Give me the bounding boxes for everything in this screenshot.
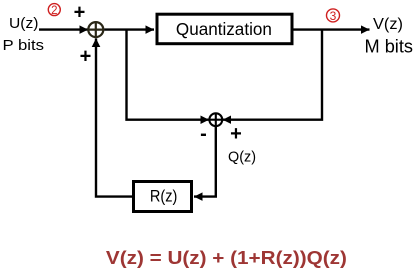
annotation circled 2 bbox=[48, 4, 60, 17]
svg-text:2: 2 bbox=[51, 5, 57, 17]
wire R(z) output left and up into summer S1 bottom input bbox=[96, 38, 132, 196]
svg-text:P bits: P bits bbox=[3, 37, 45, 54]
svg-text:U(z): U(z) bbox=[9, 15, 39, 32]
wire feedforward tap from quantizer input down to summer S2 minus input bbox=[127, 30, 210, 120]
svg-text:Quantization: Quantization bbox=[176, 19, 272, 39]
svg-text:+: + bbox=[80, 46, 92, 68]
wire feedback tap from quantizer output down to summer S2 plus input bbox=[223, 30, 322, 120]
svg-text:V(z): V(z) bbox=[373, 16, 403, 33]
svg-text:M bits: M bits bbox=[365, 37, 414, 57]
summer S1 (adder circle with cross) bbox=[88, 21, 104, 37]
svg-text:3: 3 bbox=[330, 9, 337, 23]
svg-text:+: + bbox=[230, 123, 242, 145]
annotation circled 3 bbox=[327, 9, 340, 23]
block Quantization bbox=[157, 14, 292, 44]
wire Quantization output to V(z) bbox=[294, 28, 370, 30]
summer S2 (adder circle with cross) bbox=[209, 113, 223, 127]
svg-text:V(z) = U(z) + (1+R(z))Q(z): V(z) = U(z) + (1+R(z))Q(z) bbox=[106, 248, 347, 268]
svg-text:Q(z): Q(z) bbox=[228, 149, 256, 166]
svg-text:-: - bbox=[200, 123, 207, 145]
wire input U(z) to summer S1 bbox=[39, 28, 88, 30]
svg-text:R(z): R(z) bbox=[150, 187, 178, 206]
svg-text:+: + bbox=[74, 2, 86, 24]
wire summer S1 to Quantization block bbox=[104, 28, 154, 30]
wire summer S2 down and left into R(z) block bbox=[194, 127, 216, 197]
block R(z) bbox=[134, 182, 192, 212]
